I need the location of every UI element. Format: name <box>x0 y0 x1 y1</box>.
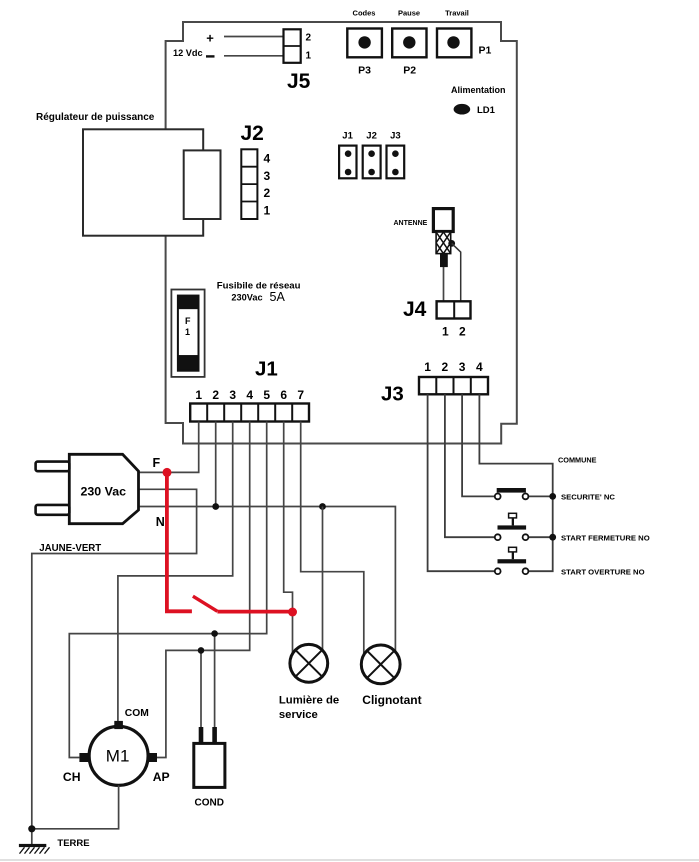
svg-text:Alimentation: Alimentation <box>451 85 506 95</box>
junction N-lamp1 <box>319 503 326 510</box>
svg-text:AP: AP <box>153 770 170 784</box>
wire antenna core to J4 pin1 <box>443 267 445 301</box>
switch start fermeture NO <box>495 513 650 542</box>
pin labels J1 <box>195 388 304 402</box>
label JAUNE-VERT <box>39 543 101 554</box>
svg-text:1: 1 <box>424 360 431 374</box>
svg-text:Pause: Pause <box>398 9 420 18</box>
connector J3 <box>419 377 488 394</box>
svg-text:2: 2 <box>264 186 271 200</box>
label N <box>156 515 165 529</box>
svg-text:Clignotant: Clignotant <box>362 693 421 707</box>
svg-text:COMMUNE: COMMUNE <box>558 456 597 465</box>
svg-text:Travail: Travail <box>445 9 469 18</box>
wire N to lamp1 <box>322 507 324 651</box>
svg-text:Fusibile de réseau: Fusibile de réseau <box>217 280 301 291</box>
junction pin2-N <box>212 503 219 510</box>
svg-text:J1: J1 <box>342 131 353 142</box>
bottom frame line <box>0 859 699 861</box>
antenna cable hatch <box>436 232 451 254</box>
svg-text:1: 1 <box>264 204 271 218</box>
wire J5 plus <box>224 36 284 38</box>
svg-text:3: 3 <box>229 388 236 402</box>
fuse label <box>217 280 301 304</box>
antenna shield dot <box>448 240 455 247</box>
red node lamp1 <box>288 608 297 617</box>
motor M1 <box>79 721 157 786</box>
wire J1 pin1 to F <box>139 422 199 473</box>
svg-text:1: 1 <box>185 327 190 337</box>
label COM <box>125 708 149 719</box>
svg-text:SECURITE' NC: SECURITE' NC <box>561 493 615 502</box>
svg-text:2: 2 <box>212 388 219 402</box>
svg-text:Régulateur de puissance: Régulateur de puissance <box>36 112 155 123</box>
svg-text:J2: J2 <box>366 131 377 142</box>
svg-text:7: 7 <box>297 388 304 402</box>
svg-text:12 Vdc: 12 Vdc <box>173 48 203 58</box>
svg-text:START FERMETURE NO: START FERMETURE NO <box>561 534 650 543</box>
junction COND-AP <box>198 647 205 654</box>
pin 1 label J5 <box>306 51 312 62</box>
svg-text:service: service <box>279 709 318 721</box>
svg-text:230Vac: 230Vac <box>231 292 262 302</box>
button P2 <box>392 9 426 77</box>
lamp Clignotant <box>361 645 421 707</box>
label AP <box>153 770 170 784</box>
connector J4 <box>437 301 471 318</box>
svg-text:LD1: LD1 <box>477 105 496 116</box>
wire J5 minus <box>224 55 284 57</box>
wire J3 pin2 to fermeture <box>445 394 495 537</box>
wire COND pin1 <box>200 650 202 727</box>
switch start overture NO <box>495 547 645 576</box>
wire antenna shield to J4 pin2 <box>452 243 461 301</box>
wire J1 pin7 to lamp2 <box>301 422 364 656</box>
jumper J3 <box>387 131 405 179</box>
svg-text:2: 2 <box>459 325 466 339</box>
label J2 <box>241 122 264 145</box>
ground TERRE <box>19 838 90 854</box>
wire motor to earth <box>32 785 119 828</box>
red node F <box>163 468 172 477</box>
antenna pin <box>440 254 448 267</box>
svg-text:J3: J3 <box>381 383 404 406</box>
label CH <box>63 770 81 784</box>
wire fermeture to common <box>528 536 552 538</box>
svg-text:Codes: Codes <box>353 9 376 18</box>
svg-text:1: 1 <box>195 388 202 402</box>
wire J3 pin1 to overture <box>428 394 495 571</box>
svg-text:F: F <box>153 456 161 470</box>
plug 230 Vac <box>36 454 139 523</box>
LED LD1 <box>451 85 506 116</box>
svg-text:P2: P2 <box>403 65 416 77</box>
svg-text:COM: COM <box>125 708 149 719</box>
svg-text:3: 3 <box>264 169 271 183</box>
svg-text:J1: J1 <box>255 357 278 380</box>
regulator block <box>36 112 221 236</box>
svg-text:START OVERTURE NO: START OVERTURE NO <box>561 568 645 577</box>
svg-text:J3: J3 <box>390 131 401 142</box>
svg-text:JAUNE-VERT: JAUNE-VERT <box>39 543 101 554</box>
fuse F1 <box>171 290 204 377</box>
svg-text:J4: J4 <box>403 298 427 321</box>
button P1 <box>437 9 492 58</box>
label J1 <box>255 357 278 380</box>
wire J1 pin2 to N <box>215 422 217 507</box>
wire securite to common <box>528 495 552 497</box>
lamp Lumiere de service <box>279 644 339 721</box>
pin labels J2 <box>264 152 271 218</box>
svg-text:2: 2 <box>306 33 312 44</box>
switch securite NC <box>495 488 616 502</box>
jumper J1 <box>339 131 356 179</box>
svg-text:P1: P1 <box>479 45 492 57</box>
wire J1 pin3 to COM <box>118 422 233 722</box>
pin labels J3 <box>424 360 483 374</box>
button P3 <box>347 9 382 77</box>
label 12 Vdc <box>173 31 215 59</box>
svg-text:1: 1 <box>442 325 449 339</box>
svg-text:1: 1 <box>306 51 312 62</box>
svg-text:CH: CH <box>63 770 81 784</box>
label J3 <box>381 383 404 406</box>
connector J2 <box>241 149 257 219</box>
svg-text:N: N <box>156 515 165 529</box>
junction COND-CH <box>211 630 218 637</box>
wire J1 pin4 to AP <box>157 422 250 758</box>
svg-text:4: 4 <box>264 152 271 166</box>
svg-text:M1: M1 <box>106 747 130 766</box>
svg-text:COND: COND <box>195 798 224 809</box>
pin 2 label J5 <box>306 33 312 44</box>
connector J5 <box>284 29 301 63</box>
svg-text:6: 6 <box>280 388 287 402</box>
svg-text:Lumière de: Lumière de <box>279 695 339 707</box>
wire J3 pin3 to securite <box>462 394 495 496</box>
svg-text:+: + <box>206 31 214 46</box>
svg-text:F: F <box>185 316 191 326</box>
svg-text:3: 3 <box>459 360 466 374</box>
svg-text:J2: J2 <box>241 122 264 145</box>
antenna connector <box>394 209 454 232</box>
svg-text:4: 4 <box>246 388 253 402</box>
board outline <box>166 22 517 444</box>
label J5 <box>287 70 311 93</box>
jumper J2 <box>363 131 381 179</box>
svg-text:2: 2 <box>442 360 449 374</box>
wire J3 pin4 commune <box>479 394 552 571</box>
svg-text:230 Vac: 230 Vac <box>81 485 127 499</box>
svg-text:P3: P3 <box>358 65 371 77</box>
wire J1 pin6 to lamp1 <box>284 422 293 654</box>
connector J1 <box>190 404 309 422</box>
wire J1 pin5 to CH <box>69 422 266 758</box>
junction common-securite <box>549 493 556 500</box>
capacitor COND <box>194 727 225 809</box>
wire earth from plug <box>32 489 197 844</box>
svg-text:TERRE: TERRE <box>57 838 89 849</box>
svg-text:ANTENNE: ANTENNE <box>394 220 428 227</box>
red wire F branch <box>167 472 293 611</box>
svg-text:4: 4 <box>476 360 483 374</box>
wire COND pin2 <box>214 634 216 727</box>
wire N line <box>139 507 396 652</box>
label F <box>153 456 161 470</box>
svg-text:J5: J5 <box>287 70 311 93</box>
junction earth-motor <box>28 825 35 832</box>
junction common-fermeture <box>549 534 556 541</box>
label J4 <box>403 298 427 321</box>
svg-text:5A: 5A <box>270 290 286 304</box>
pin labels J4 <box>442 325 466 339</box>
label COMMUNE <box>558 456 597 465</box>
svg-text:5: 5 <box>263 388 270 402</box>
